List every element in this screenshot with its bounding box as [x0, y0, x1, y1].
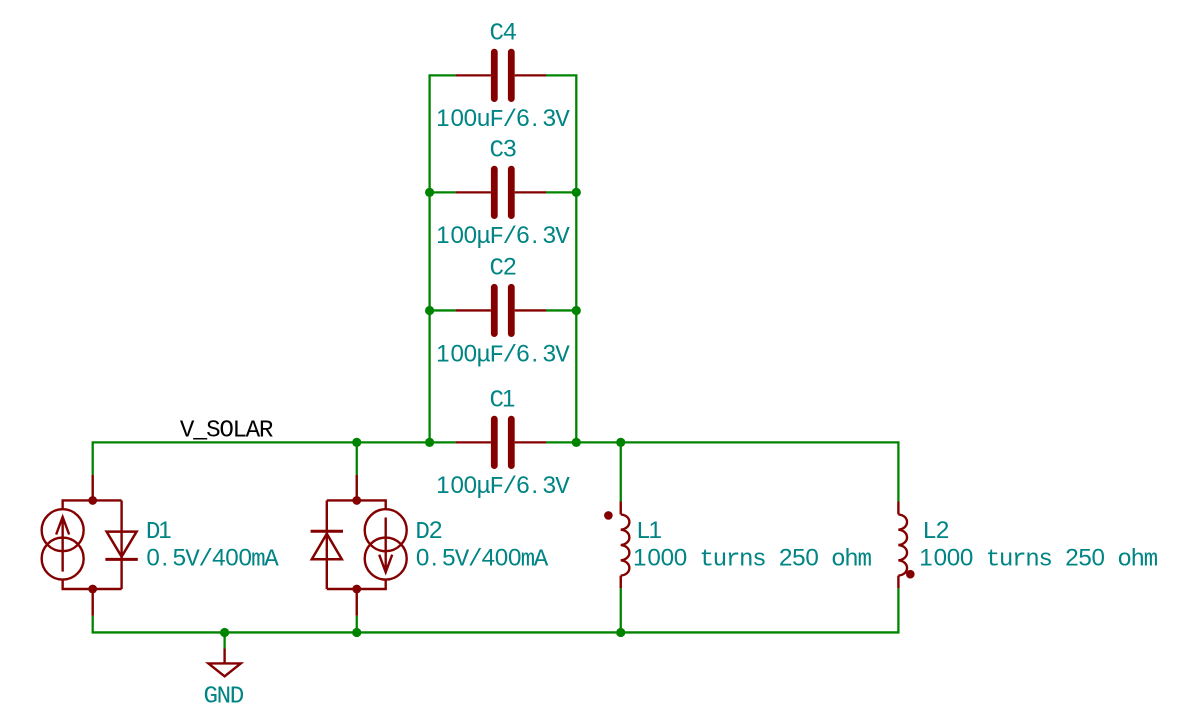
junction: D2 on top bus	[352, 438, 361, 447]
pin 2: D2 bottom	[356, 589, 358, 616]
pin 2: L1 bottom	[620, 576, 622, 589]
junction: L1 on top bus	[616, 438, 625, 447]
wire: L1 bottom stem	[620, 588, 622, 632]
wire: C3 row left stub	[430, 191, 456, 193]
wire: capacitor ladder left rail	[430, 75, 456, 442]
pin 1: C1 left lead	[456, 441, 491, 443]
current source circle: D2 upper	[365, 509, 407, 551]
node: L2 polarity dot	[906, 570, 915, 579]
diode lead of D1	[120, 500, 122, 589]
current arrow of D2	[385, 518, 387, 573]
pin 2: C3 right lead	[515, 191, 546, 193]
current arrow of D1	[61, 517, 63, 572]
junction: GND on bottom bus	[220, 628, 229, 637]
inductor L2	[898, 502, 914, 589]
plate: C2 left	[491, 287, 498, 333]
svg-text:L1: L1	[636, 517, 662, 546]
plate: C1 left	[491, 419, 498, 465]
pin 2: C2 right lead	[515, 309, 546, 311]
svg-text:V_​SOLAR: V_​SOLAR	[180, 413, 273, 444]
pin 1: C3 left lead	[456, 191, 491, 193]
diode of D1	[107, 532, 137, 557]
svg-text:0.5V/400mA: 0.5V/400mA	[146, 545, 279, 574]
coil winding of L1	[621, 514, 630, 575]
pin 2: D1 bottom	[91, 589, 93, 616]
node: L1 polarity dot	[604, 511, 613, 520]
pin 2: C1 right lead	[515, 441, 546, 443]
capacitor C1	[456, 419, 546, 465]
svg-text:D1: D1	[146, 517, 172, 546]
pin 1: D1 top	[91, 475, 93, 500]
current source circle: D1 lower	[42, 538, 84, 580]
diode lead of D2	[326, 500, 328, 589]
solar cell D2	[311, 475, 407, 616]
junction: C2 row left	[425, 306, 434, 315]
plate: C3 left	[491, 169, 498, 215]
junction: left rail on top bus	[425, 438, 434, 447]
wire: D2 top stem	[356, 442, 358, 475]
wire: D2 bottom stem	[356, 616, 358, 633]
junction: right rail on top bus	[572, 438, 581, 447]
plate: C1 right	[508, 419, 515, 465]
junction: D2 on bottom bus	[352, 628, 361, 637]
svg-text:0.5V/400mA: 0.5V/400mA	[416, 545, 549, 574]
wire: D1 bottom bracket	[63, 580, 122, 589]
svg-text:100µF/6.3V: 100µF/6.3V	[436, 222, 570, 251]
pin 2: C4 right lead	[515, 74, 546, 76]
wire: V_SOLAR top bus, D1 corner to C1 left pin	[93, 442, 456, 475]
capacitor C3	[456, 169, 546, 215]
capacitor C2	[456, 287, 546, 333]
svg-text:C4: C4	[489, 18, 516, 47]
pin: GND stem	[223, 649, 225, 664]
svg-text:100uF/6.3V: 100uF/6.3V	[436, 105, 570, 134]
plate: C4 right	[508, 52, 515, 98]
svg-text:GND: GND	[203, 683, 244, 710]
capacitor C4	[456, 52, 546, 98]
svg-text:1000turns250ohm: 1000turns250ohm	[919, 544, 1158, 573]
pin 1: C4 left lead	[456, 74, 491, 76]
node: D1 top terminal dot	[88, 496, 97, 505]
solar cell D1	[42, 475, 138, 616]
junction: L1 on bottom bus	[616, 628, 625, 637]
wire: D2 top bracket	[327, 500, 386, 509]
svg-text:C2: C2	[489, 254, 516, 283]
svg-text:L2: L2	[922, 517, 949, 546]
plate: C4 left	[491, 52, 498, 98]
pin 1: D2 top	[356, 475, 358, 500]
svg-text:C3: C3	[489, 135, 516, 164]
wire: L1 top stem	[620, 442, 622, 501]
wire: bottom ground bus from D1 corner across to L2 corner	[93, 588, 899, 632]
current source circle: D1 upper	[42, 509, 84, 551]
wire: C2 row left stub	[430, 309, 456, 311]
wire: C2 row right stub	[546, 309, 576, 311]
wire: V_SOLAR top bus, C1 right pin to L2 corner	[546, 442, 898, 501]
wire: D2 bottom bracket	[327, 580, 386, 589]
pin 1: L2 top	[897, 502, 899, 515]
pin 1: C2 left lead	[456, 309, 491, 311]
current source circle: D2 lower	[365, 538, 407, 580]
pin 1: L1 top	[620, 502, 622, 515]
junction: C3 row right	[572, 188, 581, 197]
svg-text:100µF/6.3V: 100µF/6.3V	[436, 340, 570, 369]
plate: C2 right	[508, 287, 515, 333]
svg-text:100µF/6.3V: 100µF/6.3V	[436, 472, 570, 501]
ground power symbol GND	[208, 649, 240, 677]
diode of D2	[312, 534, 342, 560]
inductor L1	[604, 502, 629, 589]
junction: C2 row right	[572, 306, 581, 315]
wire: GND stem	[223, 632, 225, 648]
svg-text:D2: D2	[415, 517, 442, 546]
coil winding of L2	[898, 514, 907, 575]
node: D2 top terminal dot	[352, 496, 361, 505]
wire: D1 top bracket	[63, 500, 122, 509]
pin 2: L2 bottom	[897, 576, 899, 589]
node: D1 bottom terminal dot	[88, 585, 97, 594]
node: D2 bottom terminal dot	[352, 585, 361, 594]
ground triangle	[208, 663, 240, 676]
wire: capacitor ladder right rail	[546, 75, 576, 442]
wire: C3 row right stub	[546, 191, 576, 193]
junction: C3 row left	[425, 188, 434, 197]
svg-text:C1: C1	[489, 386, 515, 415]
svg-text:1000turns250ohm: 1000turns250ohm	[633, 544, 872, 573]
plate: C3 right	[508, 169, 515, 215]
